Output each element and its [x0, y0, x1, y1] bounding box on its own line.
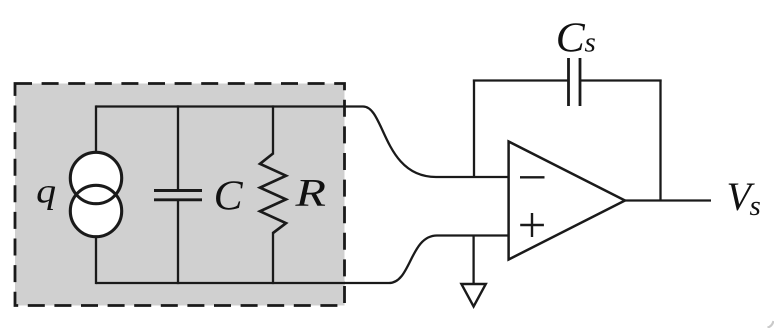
current source q (two overlapping circles) [70, 152, 121, 236]
ground symbol [461, 284, 485, 307]
dashed sensor box (shaded region) [15, 84, 345, 306]
wire: feedback left vertical [473, 80, 475, 178]
wire: capacitor bottom stub [177, 201, 179, 284]
wire: resistor bottom stub [272, 232, 274, 284]
op-amp minus sign [520, 176, 545, 178]
corner artifact [768, 321, 774, 328]
wire: current source top stub [95, 105, 97, 152]
wire: bottom S-curve from box to non-inverting input [344, 236, 510, 284]
svg-text:R: R [294, 171, 326, 214]
wire: feedback right vertical [659, 80, 661, 201]
wire: resistor top stub [272, 105, 274, 154]
wire: current source bottom stub [95, 237, 97, 284]
wire: bottom rail inside box [96, 282, 345, 284]
svg-text:C: C [556, 14, 586, 61]
label Vs [727, 174, 761, 222]
wire: output from op-amp [625, 199, 711, 201]
ground stem [472, 236, 474, 285]
svg-text:C: C [214, 173, 244, 220]
label Cs [556, 14, 596, 61]
svg-text:s: s [750, 190, 761, 222]
resistor R zigzag [260, 154, 286, 234]
capacitor C plates [154, 191, 202, 200]
op-amp U1 triangle [509, 142, 625, 260]
svg-text:s: s [585, 27, 596, 59]
wire: feedback top left segment [473, 79, 568, 81]
op-amp plus sign [520, 213, 544, 237]
wire: capacitor top stub [177, 105, 179, 189]
capacitor Cs plates [569, 58, 581, 106]
wire: feedback top right segment [581, 79, 662, 81]
wire: top rail inside box [96, 105, 345, 107]
wire: top S-curve from box to inverting input [344, 107, 510, 178]
svg-text:q: q [36, 173, 56, 211]
